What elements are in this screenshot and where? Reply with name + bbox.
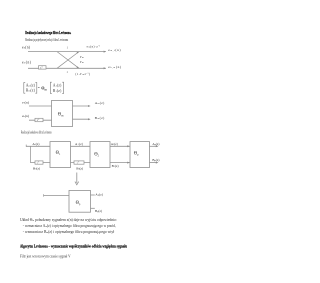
arrowhead into Theta_3 top bbox=[127, 145, 130, 147]
wire: cross branch down (lattice) bbox=[57, 52, 79, 69]
svg-text:Filtr jest wzorcowym czasie sy: Filtr jest wzorcowym czasie sygnał V bbox=[20, 255, 71, 259]
svg-text:Algorytm Levinsona – wyznaczan: Algorytm Levinsona – wyznaczanie współcz… bbox=[20, 243, 128, 248]
svg-text:e0(n): e0(n) bbox=[22, 60, 32, 64]
arrowhead top rail bbox=[104, 51, 107, 53]
svg-text:Realizacja pojedynczej sekcji: Realizacja pojedynczej sekcji filtru Lev… bbox=[25, 37, 68, 42]
svg-text:B0(z): B0(z) bbox=[33, 167, 40, 171]
wire: cross branch up (lattice) bbox=[57, 52, 79, 69]
svg-text:e0(n): e0(n) bbox=[22, 46, 31, 50]
arrowhead top output bbox=[88, 105, 91, 107]
bracket left 2 bbox=[50, 82, 51, 93]
bracket left 1 bbox=[24, 83, 25, 94]
svg-text:ef(n): ef(n) bbox=[22, 101, 29, 105]
wire: bottom input to Theta_m box bbox=[29, 119, 52, 121]
arrowhead bottom output bbox=[88, 118, 91, 120]
wire: bottom connector 2-3 bbox=[110, 162, 130, 164]
svg-text:eb(n): eb(n) bbox=[22, 114, 29, 118]
wire: top output of Theta_m box bbox=[73, 105, 90, 107]
wire: bottom output of Theta_m box bbox=[73, 118, 90, 120]
wire: lattice bottom rail bbox=[28, 67, 106, 69]
arrow down (between diagrams) bbox=[76, 173, 78, 184]
arrowhead output bottom bbox=[156, 162, 159, 164]
svg-text:B1(z): B1(z) bbox=[76, 167, 83, 171]
wire: cascade input bottom bbox=[30, 162, 50, 164]
wire: cascade output top bbox=[150, 145, 158, 147]
svg-text:B2(z): B2(z) bbox=[112, 164, 119, 168]
svg-text:Realizacja kaskadowa filtru Le: Realizacja kaskadowa filtru Levinsona bbox=[21, 130, 52, 135]
wire: final box output bottom bbox=[91, 207, 95, 209]
svg-text:=: = bbox=[38, 86, 40, 90]
arrowhead cross up bbox=[76, 52, 79, 54]
wire: final box output top bbox=[91, 194, 95, 196]
arrowhead bottom rail bbox=[104, 67, 107, 69]
delay element z^-1 (cascade input) bbox=[35, 161, 43, 164]
wire: top connector 1-2 bbox=[71, 145, 91, 147]
arrowhead output top bbox=[156, 145, 159, 147]
block Theta_2 bbox=[90, 142, 110, 168]
svg-text:A2(z): A2(z) bbox=[111, 142, 118, 146]
input tick (final box) bbox=[43, 194, 45, 196]
svg-text:Am(z): Am(z) bbox=[95, 101, 105, 105]
wire: top input to Theta_m box bbox=[29, 105, 52, 107]
block Theta_p (final) bbox=[69, 191, 91, 213]
wire: input riser bbox=[29, 146, 31, 162]
svg-text:Ap(z): Ap(z) bbox=[95, 192, 103, 196]
delay element z^-1 (single section) bbox=[35, 118, 43, 121]
input tick (cascade) bbox=[25, 145, 27, 147]
svg-text:Bm(z): Bm(z) bbox=[26, 89, 36, 93]
bracket right 1 bbox=[35, 83, 36, 94]
wire: cascade output bottom bbox=[150, 162, 158, 164]
svg-text:Bm(z): Bm(z) bbox=[95, 116, 105, 120]
wire: cascade input top bbox=[26, 145, 50, 147]
wire: top connector 2-3 bbox=[110, 145, 130, 147]
svg-text:Am(z): Am(z) bbox=[26, 83, 36, 87]
delay element z^-1 (lattice) bbox=[39, 66, 47, 69]
page background bbox=[0, 0, 200, 283]
arrowhead cross down bbox=[76, 66, 79, 68]
svg-text:Bp(z): Bp(z) bbox=[95, 209, 102, 213]
svg-text:Układ Θm pobudzany sygnałem x(: Układ Θm pobudzany sygnałem x(n) daje na… bbox=[20, 218, 117, 222]
svg-text:- wzmacniacz Bm(z) i optymalne: - wzmacniacz Bm(z) i optymalnego filtru … bbox=[23, 230, 115, 234]
svg-text:Bp(z): Bp(z) bbox=[152, 158, 159, 162]
svg-text:Ap(z): Ap(z) bbox=[152, 142, 159, 146]
arrowhead into Theta_3 bottom bbox=[127, 162, 130, 164]
delay element z^-1 (between 1 and 2) bbox=[74, 161, 84, 164]
wire: bottom connector 1-2 bbox=[71, 162, 91, 164]
block Theta_m (single section box) bbox=[52, 101, 73, 127]
svg-text:A0(z): A0(z) bbox=[32, 142, 39, 146]
wire: input to final box bbox=[44, 194, 69, 196]
bracket right 2 bbox=[62, 82, 63, 93]
svg-text:B1(z): B1(z) bbox=[53, 89, 62, 93]
block Theta_1 bbox=[50, 142, 71, 168]
svg-text:Realizacja kaskadowego filtru: Realizacja kaskadowego filtru Levinsona. bbox=[25, 30, 71, 35]
svg-text:A1(z): A1(z) bbox=[53, 84, 62, 88]
wire: lattice top rail bbox=[28, 51, 106, 53]
block Theta_p bbox=[130, 142, 150, 168]
svg-text:A1(z): A1(z) bbox=[75, 142, 83, 146]
